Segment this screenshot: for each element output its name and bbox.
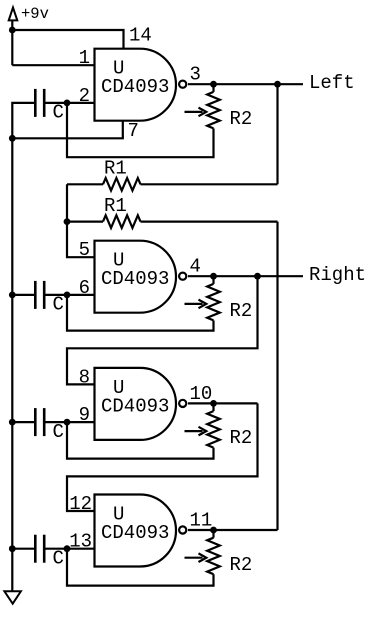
resistor R2 (gate U3) [212, 403, 214, 411]
gate U3 inversion bubble [179, 400, 186, 407]
node capacitor-input junction (gate U1) [64, 100, 71, 107]
wire capacitor left lead (gate U3) [12, 421, 34, 423]
nand gate U1 CD4093 body [95, 49, 176, 121]
svg-text:R1: R1 [104, 158, 127, 180]
wire output pin 11 [188, 529, 278, 531]
wire pin 9 input [67, 421, 95, 423]
wire output pin 3 to Left [188, 83, 303, 85]
node capacitor-input junction (gate U2) [64, 292, 71, 299]
svg-text:CD4093: CD4093 [101, 268, 169, 290]
node R2 top junction gate U1 [210, 81, 217, 88]
node power junction [9, 27, 16, 34]
wire output pin 10 [188, 402, 258, 404]
node Right feedback junction [254, 273, 261, 280]
svg-text:Right: Right [309, 264, 366, 286]
svg-text:+9v: +9v [21, 5, 49, 23]
svg-text:4: 4 [190, 256, 201, 278]
wire capacitor right lead (gate U1) [46, 102, 68, 104]
R2 wiper arrow (gate U2) [185, 303, 203, 305]
resistor R2 (gate U2) [212, 276, 214, 284]
wire R1 lower to gate U4 output [276, 222, 278, 530]
nand gate U3 CD4093 body [95, 368, 177, 440]
power symbol +9v [9, 8, 18, 21]
wire capacitor right lead (gate U4) [46, 548, 68, 550]
svg-text:3: 3 [190, 64, 201, 86]
wire output 10 to pin 12 [67, 403, 258, 511]
wire pin 6 input [67, 294, 95, 296]
node R1 junction [64, 218, 71, 225]
node ground rail pin7 junction [9, 135, 16, 142]
ground symbol [4, 591, 21, 603]
capacitor C (gate U2) plates [34, 281, 37, 309]
R2 wiper arrow (gate U4) [185, 557, 203, 559]
resistor R2 (gate U4) [212, 530, 214, 538]
resistor R2 (gate U1) [212, 84, 214, 92]
node Left junction [274, 81, 281, 88]
resistor R1 (upper) [141, 183, 278, 185]
resistor R1 (lower) [67, 221, 103, 223]
node R2 top junction gate U4 [210, 527, 217, 534]
svg-text:11: 11 [190, 510, 213, 532]
svg-text:R2: R2 [230, 427, 253, 449]
wire capacitor right lead (gate U3) [46, 421, 68, 423]
svg-text:7: 7 [128, 120, 139, 142]
wire pin 7 to ground rail [12, 121, 123, 139]
nand gate U2 CD4093 body [95, 241, 177, 313]
gate U1 inversion bubble [179, 81, 186, 88]
wire vdd to pin14 [12, 30, 123, 49]
node R2 top junction gate U2 [210, 273, 217, 280]
node ground rail tap (gate U4) [9, 545, 16, 552]
svg-text:C: C [53, 421, 64, 443]
node R2 top junction gate U3 [210, 400, 217, 407]
wire pin 1 from +9v rail [12, 64, 94, 66]
node ground rail tap (gate U2) [9, 292, 16, 299]
R2 wiper arrow (gate U1) [185, 111, 203, 113]
svg-text:C: C [53, 548, 64, 570]
svg-text:CD4093: CD4093 [101, 76, 169, 98]
wire R1 junction column to pin 5 [67, 184, 95, 257]
gate U4 inversion bubble [179, 526, 186, 533]
wire R2 bottom feedback (gate U4) [67, 549, 214, 586]
svg-text:R2: R2 [230, 300, 253, 322]
svg-text:R2: R2 [230, 554, 253, 576]
gate U2 inversion bubble [179, 273, 186, 280]
node ground rail tap (gate U3) [9, 419, 16, 426]
svg-text:CD4093: CD4093 [101, 395, 169, 417]
node capacitor-input junction (gate U3) [64, 419, 71, 426]
svg-text:Left: Left [309, 72, 355, 94]
wire +9v rail [11, 20, 13, 65]
node capacitor-input junction (gate U4) [64, 545, 71, 552]
svg-text:14: 14 [129, 25, 152, 47]
svg-text:10: 10 [190, 383, 213, 405]
svg-text:R1: R1 [104, 195, 127, 217]
nand gate U4 CD4093 body [95, 495, 177, 567]
wire output 4 to pin 8 [67, 276, 258, 384]
R2 wiper arrow (gate U3) [185, 430, 203, 432]
wire pin 13 input [67, 548, 95, 550]
wire capacitor left lead (gate U2) [12, 294, 34, 296]
wire R2 bottom feedback (gate U3) [67, 422, 214, 459]
wire pin 2 input [67, 102, 95, 104]
svg-text:C: C [53, 102, 64, 124]
wire output pin 4 to Right [188, 275, 303, 277]
wire capacitor right lead (gate U2) [46, 294, 68, 296]
wire capacitor left lead (gate U4) [12, 548, 34, 550]
capacitor C (gate U3) plates [34, 408, 37, 436]
capacitor C (gate U1) plates [34, 89, 37, 117]
svg-text:CD4093: CD4093 [101, 522, 169, 544]
wire Left node down to R1 [276, 84, 278, 184]
capacitor C (gate U4) plates [34, 535, 37, 563]
svg-text:R2: R2 [230, 108, 253, 130]
svg-text:C: C [53, 294, 64, 316]
wire R2 bottom feedback (gate U2) [67, 295, 214, 331]
wire R2 bottom feedback (gate U1) [67, 103, 214, 157]
wire ground rail [12, 103, 34, 591]
